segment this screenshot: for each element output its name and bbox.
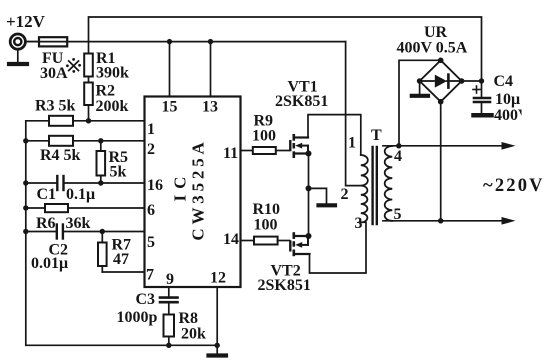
- label tap 5: [394, 206, 402, 223]
- svg-text:~220V: ~220V: [483, 176, 545, 196]
- label tap 1: [348, 135, 356, 152]
- wire pin 15: [167, 39, 172, 97]
- svg-text:3: 3: [355, 215, 363, 232]
- svg-text:R10: R10: [253, 201, 281, 218]
- svg-text:R8: R8: [179, 310, 199, 327]
- svg-text:13: 13: [202, 99, 218, 116]
- wire output line 4: [383, 142, 516, 150]
- svg-text:4: 4: [394, 148, 402, 165]
- svg-text:C1: C1: [37, 186, 57, 203]
- wire +12V to tap 2: [346, 42, 361, 186]
- resistor R2: [84, 77, 128, 121]
- transistor VT2 2SK851: [258, 232, 312, 294]
- resistor R1: [84, 42, 129, 82]
- svg-text:400V 0.5A: 400V 0.5A: [397, 40, 468, 57]
- capacitor C1: [37, 175, 96, 203]
- wire bridge top to tap 4: [399, 60, 441, 146]
- svg-text:16: 16: [147, 177, 163, 194]
- resistor R7: [98, 229, 131, 272]
- svg-text:12: 12: [210, 270, 226, 287]
- svg-text:11: 11: [223, 145, 238, 162]
- svg-text:30A: 30A: [40, 65, 68, 82]
- resistor R9: [241, 113, 290, 155]
- svg-text:UR: UR: [424, 24, 448, 41]
- svg-text:C4: C4: [494, 73, 514, 90]
- bridge rectifier UR: [397, 24, 468, 104]
- label T: [371, 127, 382, 144]
- svg-text:CW3525A: CW3525A: [189, 138, 208, 240]
- transformer core: [373, 147, 377, 224]
- svg-text:2SK851: 2SK851: [258, 277, 311, 294]
- label tap 3: [355, 215, 363, 232]
- svg-text:T: T: [371, 127, 382, 144]
- ground: [9, 50, 27, 65]
- svg-text:C3: C3: [136, 291, 156, 308]
- wire left rail and bottom wire: [26, 121, 217, 345]
- fuse FU: [39, 37, 68, 82]
- svg-text:IC: IC: [171, 171, 190, 202]
- svg-text:5: 5: [147, 234, 155, 251]
- svg-text:47: 47: [113, 251, 129, 268]
- ground: [412, 81, 428, 96]
- svg-text:100: 100: [252, 128, 276, 145]
- wire pin 6 line: [23, 205, 144, 210]
- wire output line 5: [383, 217, 516, 225]
- svg-text:1: 1: [348, 135, 356, 152]
- resistor R10: [241, 201, 290, 245]
- svg-text:R3 5k: R3 5k: [35, 98, 76, 115]
- ground: [474, 113, 492, 118]
- resistor R5: [97, 138, 129, 186]
- label tap 2: [341, 186, 349, 203]
- wire pin 12: [215, 287, 220, 348]
- transistor VT1 2SK851: [275, 79, 328, 159]
- wire pin 5 line: [23, 229, 144, 234]
- svg-text:100: 100: [254, 217, 278, 234]
- capacitor C2: [31, 224, 68, 273]
- svg-text:0.01μ: 0.01μ: [31, 255, 68, 272]
- svg-text:R6: R6: [36, 215, 56, 232]
- svg-text:9: 9: [166, 271, 174, 288]
- svg-text:1000p: 1000p: [117, 309, 158, 326]
- wire +12V rail: [26, 41, 346, 43]
- wire pin 13: [208, 39, 213, 97]
- svg-text:2SK851: 2SK851: [275, 93, 328, 110]
- transformer T secondary: [385, 146, 393, 221]
- connector J1: [10, 34, 39, 49]
- svg-text:2: 2: [341, 186, 349, 203]
- svg-text:5k: 5k: [110, 164, 127, 181]
- wire VT1 drain to tap 1: [308, 115, 361, 155]
- wire pin 2 line: [23, 138, 144, 143]
- resistor R8: [164, 303, 207, 348]
- svg-text:200k: 200k: [96, 98, 129, 115]
- junction R2-pin1: [86, 118, 91, 123]
- label ~220V: [483, 176, 545, 196]
- op-amp U1 IC CW3525A: [145, 97, 241, 289]
- svg-text:10μ: 10μ: [495, 91, 520, 108]
- wire bridge bottom to tap 5: [440, 102, 442, 221]
- transformer T primary: [361, 155, 368, 222]
- svg-text:0.1μ: 0.1μ: [66, 186, 95, 203]
- capacitor C4: [462, 73, 545, 124]
- svg-text:2: 2: [147, 141, 155, 158]
- ground: [209, 345, 227, 355]
- wire VT2 drain to tap 3: [310, 222, 367, 273]
- svg-text:1: 1: [147, 121, 155, 138]
- resistor R3: [35, 98, 76, 126]
- wire source rail: [306, 154, 312, 237]
- svg-text:6: 6: [147, 202, 155, 219]
- ground: [309, 188, 336, 205]
- label tap 4: [394, 148, 402, 165]
- wire pin 7 line: [102, 271, 144, 273]
- svg-text:15: 15: [162, 99, 178, 116]
- svg-text:14: 14: [223, 231, 239, 248]
- resistor R4: [40, 136, 81, 164]
- capacitor C3: [117, 287, 178, 326]
- svg-text:7: 7: [146, 267, 154, 284]
- wire top rail: [89, 17, 482, 81]
- svg-text:R4 5k: R4 5k: [40, 147, 81, 164]
- node +12V: [6, 12, 46, 31]
- wire pin 1 line: [26, 120, 145, 122]
- svg-text:36k: 36k: [66, 215, 91, 232]
- svg-text:R2: R2: [96, 83, 116, 100]
- svg-text:+12V: +12V: [6, 12, 46, 31]
- svg-text:20k: 20k: [181, 326, 206, 343]
- resistor R6: [36, 204, 91, 232]
- svg-text:390k: 390k: [96, 65, 129, 82]
- wire pin 16 line: [23, 180, 144, 185]
- reference mark: [66, 58, 81, 73]
